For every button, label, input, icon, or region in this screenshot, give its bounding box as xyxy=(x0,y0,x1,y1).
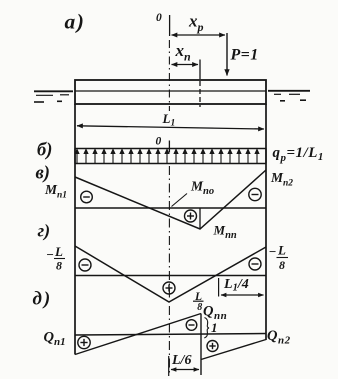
beam (hull) xyxy=(75,80,266,104)
svg-text:0: 0 xyxy=(156,12,162,24)
Q diagram baseline xyxy=(75,334,266,336)
sign minus (M right) xyxy=(249,188,261,200)
sign plus (Q left) xyxy=(78,336,90,348)
sign minus (m left) xyxy=(79,259,91,271)
svg-text:L: L xyxy=(277,243,286,258)
uniform load strip q_p xyxy=(75,149,266,164)
sign plus (M center) xyxy=(185,210,197,222)
svg-text:д): д) xyxy=(33,289,53,310)
label M_no with leader xyxy=(172,179,215,207)
label -L/8 (left) xyxy=(46,244,65,273)
centerline (dash-dot axis at x=169.5) xyxy=(168,15,170,375)
M diagram baseline xyxy=(75,207,266,209)
M diagram outline xyxy=(75,170,266,229)
svg-text:8: 8 xyxy=(56,259,62,273)
left frame vertical xyxy=(74,104,76,355)
waterline marks left xyxy=(34,91,73,102)
dimension L1 xyxy=(77,111,264,129)
svg-text:−: − xyxy=(46,247,54,262)
dimension L1/4 xyxy=(219,277,264,297)
uniform load arrows xyxy=(75,150,259,164)
sign minus (Q mid) xyxy=(186,320,197,331)
sign minus (M left) xyxy=(81,191,93,203)
svg-text:г): г) xyxy=(38,221,51,242)
Q jump at section n xyxy=(200,314,202,376)
dimension x_p xyxy=(172,12,226,36)
svg-text:8: 8 xyxy=(197,302,202,313)
svg-text:L/6: L/6 xyxy=(171,353,191,368)
svg-text:1: 1 xyxy=(211,320,218,335)
Q diagram right branch xyxy=(201,340,266,360)
svg-text:P=1: P=1 xyxy=(230,47,259,64)
svg-text:−: − xyxy=(269,244,277,259)
dimension x_n xyxy=(172,41,199,65)
dimension L/6 xyxy=(169,353,199,376)
svg-text:б): б) xyxy=(37,141,52,161)
label -L/8 (right) xyxy=(269,243,289,273)
Q diagram left branch xyxy=(75,314,201,355)
m diagram outline xyxy=(75,246,266,302)
label L/8 at vertex xyxy=(193,291,204,313)
svg-text:в): в) xyxy=(36,164,50,184)
svg-text:0: 0 xyxy=(156,136,162,148)
sign minus (m right) xyxy=(249,258,261,270)
force P=1 xyxy=(227,33,259,76)
brace and unit 1 xyxy=(204,318,217,339)
m diagram baseline xyxy=(75,275,266,277)
right frame vertical xyxy=(265,104,267,340)
waterline marks right xyxy=(268,91,310,101)
sign plus (m center) xyxy=(163,282,175,294)
svg-text:L: L xyxy=(54,244,63,259)
sign plus (Q right) xyxy=(207,341,218,352)
svg-text:8: 8 xyxy=(279,258,285,272)
svg-text:а): а) xyxy=(65,10,86,34)
section n line (top, dashed through beam) xyxy=(199,60,201,108)
ordinate M_nn xyxy=(199,208,201,229)
